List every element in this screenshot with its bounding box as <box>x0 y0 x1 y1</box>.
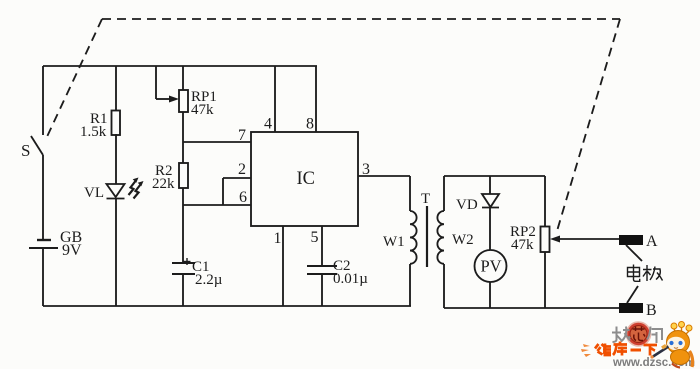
battery GB <box>29 229 82 259</box>
wiper arrow RP2 <box>550 236 619 243</box>
svg-text:47k: 47k <box>511 237 534 253</box>
wire pin 8 <box>306 66 316 133</box>
wire left rail upper <box>42 66 44 135</box>
wire VL to bottom rail <box>115 199 117 307</box>
LED VL <box>84 178 144 202</box>
resistor R2 <box>152 163 188 192</box>
wire PV to bottom rail <box>489 282 491 308</box>
svg-text:VL: VL <box>84 185 104 201</box>
electrode A <box>619 233 658 250</box>
wire C1 to bottom rail <box>182 274 184 306</box>
dashed line right diagonal <box>557 19 620 231</box>
wire bottom rail <box>43 305 411 307</box>
wire pin 6 <box>183 189 251 206</box>
svg-text:7: 7 <box>238 127 246 144</box>
wire secondary bottom rail <box>444 307 619 309</box>
capacitor C2 <box>307 258 368 287</box>
transformer T core <box>421 191 430 267</box>
electrode B <box>619 302 657 319</box>
wire R1 to VL <box>115 134 117 184</box>
wire pin 2 branch <box>223 161 251 205</box>
switch S <box>21 136 43 160</box>
svg-text:W2: W2 <box>452 232 474 248</box>
svg-text:PV: PV <box>481 257 502 276</box>
svg-text:9V: 9V <box>62 242 82 259</box>
wire top rail to R1 <box>115 66 117 111</box>
wire pin 3 <box>358 161 410 178</box>
wire switch to battery <box>42 155 44 240</box>
svg-text:2: 2 <box>238 161 246 178</box>
svg-text:22k: 22k <box>152 176 175 192</box>
wire top rail <box>43 65 317 67</box>
transformer winding W2 <box>437 176 473 308</box>
dashed line left diagonal <box>45 19 102 141</box>
wire R2 to C1 <box>182 188 184 263</box>
wire pin 4 <box>264 66 275 133</box>
wiper arrow RP1 <box>156 66 179 103</box>
svg-text:5: 5 <box>311 229 319 246</box>
wire secondary top rail <box>444 175 545 177</box>
wire battery to bottom rail <box>42 248 44 306</box>
svg-text:0.01µ: 0.01µ <box>333 271 368 287</box>
transformer winding W1 <box>383 176 417 306</box>
svg-text:IC: IC <box>297 169 316 189</box>
svg-text:47k: 47k <box>191 102 214 118</box>
svg-text:B: B <box>646 302 657 319</box>
wire pin 5 <box>311 226 323 266</box>
wire pin 1 <box>274 226 284 306</box>
potentiometer RP2 <box>510 224 550 253</box>
svg-text:4: 4 <box>264 116 272 133</box>
svg-text:8: 8 <box>306 116 314 133</box>
svg-text:1: 1 <box>274 230 282 247</box>
label electrodes (dianji) <box>626 245 663 303</box>
op-amp IC U1 <box>251 132 358 226</box>
dashed line top <box>102 18 620 20</box>
diode VD <box>456 176 499 250</box>
wire secondary right upper <box>544 176 546 227</box>
svg-text:VD: VD <box>456 197 478 213</box>
svg-text:W1: W1 <box>383 234 405 250</box>
svg-text:3: 3 <box>362 161 370 178</box>
svg-text:S: S <box>21 141 30 160</box>
svg-text:1.5k: 1.5k <box>80 124 107 140</box>
watermark logo <box>581 322 695 369</box>
wire pin 7 <box>183 127 251 144</box>
resistor R1 <box>80 111 120 141</box>
svg-text:T: T <box>421 191 430 207</box>
wire C2 to bottom rail <box>321 274 323 306</box>
svg-text:2.2µ: 2.2µ <box>195 272 223 288</box>
wire top rail to RP1 <box>182 66 184 90</box>
wire RP1 to R2 <box>182 112 184 163</box>
svg-text:6: 6 <box>239 189 247 206</box>
wire secondary right lower <box>544 252 546 308</box>
svg-text:A: A <box>646 233 658 250</box>
potentiometer RP1 <box>179 89 217 118</box>
capacitor C1 <box>172 258 223 288</box>
meter PV <box>475 250 507 282</box>
